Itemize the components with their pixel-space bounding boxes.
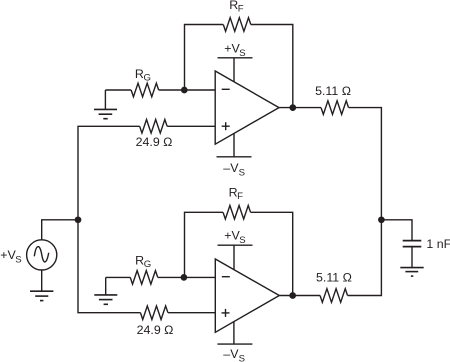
wire ground to RG2 (106, 276, 131, 278)
node output column (378, 216, 385, 223)
svg-text:+V: +V (224, 41, 240, 55)
node source junction (75, 216, 82, 223)
ground (source) (30, 291, 53, 300)
ground (capacitor) (400, 268, 423, 277)
wire main left column (78, 220, 141, 313)
+VS rail U2 (218, 229, 253, 270)
node top output (289, 104, 296, 111)
svg-text:S: S (239, 167, 245, 178)
op-amp U2 (215, 259, 279, 332)
svg-text:S: S (239, 48, 245, 59)
wire capacitor to ground (411, 247, 413, 268)
resistor 24.9 ohm (top) (136, 120, 173, 150)
node top inverting input (181, 87, 188, 94)
svg-text:24.9 Ω: 24.9 Ω (136, 135, 173, 149)
svg-text:5.11 Ω: 5.11 Ω (315, 84, 351, 98)
svg-text:–V: –V (223, 161, 239, 175)
wire 24.9 top to U1 non-inverting input (167, 125, 215, 127)
resistor RG (top) (131, 67, 158, 97)
svg-text:+V: +V (224, 229, 240, 243)
wire ground to RG1 (105, 89, 131, 91)
svg-text:S: S (239, 354, 245, 362)
wire bottom feedback left leg (185, 212, 224, 277)
svg-text:G: G (144, 259, 151, 270)
wire 24.9 bottom to U2 non-inverting input (168, 312, 215, 314)
wire U1 output (279, 107, 321, 109)
wire left column to 24.9 top (78, 126, 140, 220)
resistor 5.11 ohm (top) (315, 84, 351, 114)
ground (bottom RG) (94, 277, 117, 304)
+VS rail U1 (218, 41, 253, 82)
resistor 5.11 ohm (bottom) (316, 271, 352, 303)
source VS (0, 240, 57, 270)
wire RG1 to U1 inverting input (159, 89, 216, 91)
wire top feedback right leg (251, 25, 293, 108)
resistor RF (top feedback) (223, 0, 250, 31)
svg-text:G: G (144, 72, 151, 83)
svg-text:F: F (237, 191, 243, 202)
resistor 24.9 ohm (bottom) (137, 306, 174, 337)
svg-text:–V: –V (223, 347, 239, 361)
wire top feedback left leg (185, 25, 224, 91)
svg-text:1 nF: 1 nF (426, 237, 450, 251)
wire to capacitor (381, 220, 412, 241)
svg-text:24.9 Ω: 24.9 Ω (137, 323, 174, 337)
wire source to ground (41, 270, 43, 291)
-VS rail U1 (217, 133, 252, 178)
wire RG2 to U2 inverting input (158, 276, 216, 278)
node bottom output (289, 292, 296, 299)
wire bottom feedback right leg (251, 212, 293, 295)
-VS rail U2 (217, 322, 252, 362)
op-amp U1 (215, 71, 279, 144)
svg-text:5.11 Ω: 5.11 Ω (316, 271, 352, 285)
ground (top RG) (94, 90, 117, 119)
wire source to main column (42, 220, 78, 240)
wire U2 output (279, 295, 320, 297)
capacitor C1 1 nF (403, 237, 450, 251)
svg-text:S: S (15, 255, 21, 266)
svg-text:+V: +V (0, 248, 16, 262)
svg-text:S: S (239, 235, 245, 246)
node bottom inverting input (181, 274, 188, 281)
svg-text:F: F (238, 3, 244, 14)
resistor RG (bottom) (130, 254, 157, 285)
wire 5.11 top to right column (348, 108, 382, 296)
resistor RF (bottom feedback) (223, 185, 250, 219)
